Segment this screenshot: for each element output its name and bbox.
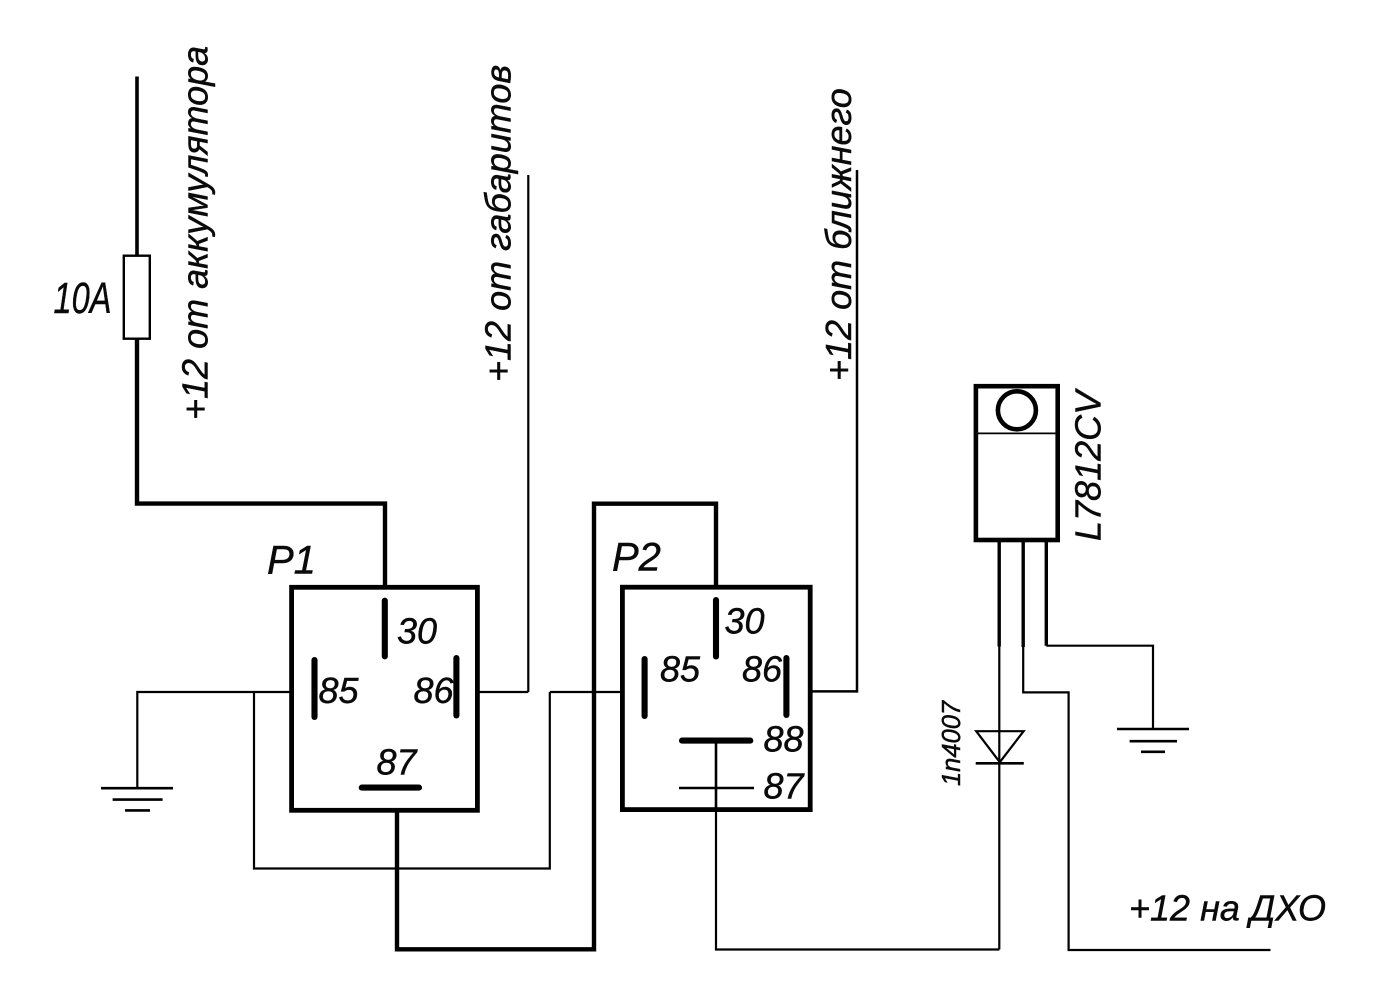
wire P2-85 entry [550,691,623,693]
svg-text:86: 86 [414,670,455,711]
svg-text:10A: 10A [54,274,112,323]
wire P1-87 to P2-30 [397,504,716,950]
regulator U1 leg 2 [1022,540,1025,647]
wire fuse to P1 pin 30 [137,338,385,589]
regulator U1 leg 3 [1045,540,1048,646]
P1 pin 86 [453,658,459,716]
relay P2 [622,587,810,809]
svg-text:L7812CV: L7812CV [1068,388,1109,541]
relay P1 [292,587,478,810]
P2 pin 85 [642,659,648,716]
diode D1 [976,731,1023,762]
wire P1-85 to P2-85 [254,692,550,869]
regulator U1 body [976,386,1058,540]
wire P1-86 to parking lights [478,691,528,693]
P2 pin 87 [679,787,754,790]
wire low beam vertical [856,170,859,693]
svg-text:86: 86 [742,649,783,690]
svg-text:30: 30 [397,611,437,652]
P1 pin 30 [382,601,388,657]
ground left [101,787,173,790]
svg-text:87: 87 [764,766,806,807]
svg-text:85: 85 [660,649,701,690]
wire parking lights vertical [527,175,529,692]
svg-text:1n4007: 1n4007 [938,700,966,786]
wire diode vertical [998,647,1000,950]
svg-text:+12 от аккумулятора: +12 от аккумулятора [175,46,216,420]
svg-text:88: 88 [764,719,804,760]
wire P1-85 to ground [137,692,291,787]
svg-text:+12 от габаритов: +12 от габаритов [478,65,519,382]
P2 pin 88 [682,738,750,744]
wire U1 pin2 to DRL output [1023,647,1270,950]
P2 pin 30 [713,600,719,657]
wire P2-86 to low beam [810,690,857,693]
svg-text:30: 30 [725,601,765,642]
svg-text:87: 87 [377,742,419,783]
svg-text:P2: P2 [612,536,661,580]
ground right [1117,728,1189,731]
fuse F1 [124,256,150,339]
wire U1 pin3 to ground [1046,646,1153,729]
wire P2-87 to diode bottom [716,810,999,950]
svg-text:85: 85 [319,670,360,711]
P1 pin 87 [362,785,419,791]
wire battery supply top [135,77,139,258]
P2 internal wire 88 to bottom [715,741,718,810]
svg-text:P1: P1 [267,539,316,583]
P1 pin 85 [311,660,317,717]
regulator U1 divider [974,432,1060,434]
diode D1 cathode bar [976,762,1024,765]
regulator U1 mounting hole [998,391,1036,429]
svg-text:+12 на ДХО: +12 на ДХО [1129,888,1326,929]
P2 pin 86 [783,658,789,715]
regulator U1 leg 1 [998,540,1001,647]
svg-text:+12 от ближнего: +12 от ближнего [818,88,859,381]
